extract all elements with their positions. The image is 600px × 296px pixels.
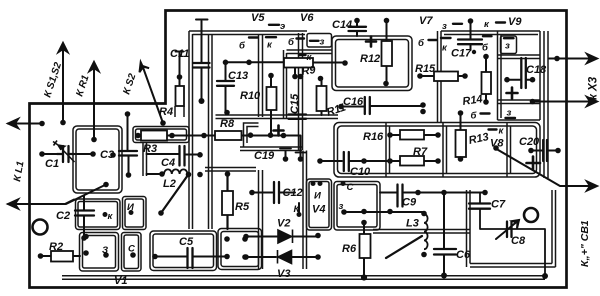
- svg-text:С7: С7: [491, 199, 506, 211]
- dash of b V5: [249, 36, 258, 38]
- arrow K S2 head: [140, 62, 150, 72]
- wire R13 leads: [460, 113, 462, 159]
- trace dividers V9 column: [498, 55, 541, 120]
- svg-text:R6: R6: [342, 243, 357, 255]
- capacitor C2 plates: [75, 211, 94, 216]
- box C1/C3 cell: [73, 126, 122, 193]
- capacitor C11 plates: [193, 63, 210, 68]
- resistor R14: [482, 72, 492, 94]
- plus C14: [366, 37, 376, 47]
- diode V2: [278, 230, 293, 244]
- svg-text:С15: С15: [289, 93, 301, 114]
- trace under R3 down to L2: [143, 143, 147, 177]
- svg-text:R9: R9: [301, 64, 317, 78]
- svg-text:С2: С2: [56, 210, 70, 222]
- trace bottom long near board bottom edge: [62, 276, 545, 279]
- wire C11 lead: [196, 20, 208, 102]
- svg-text:R3: R3: [143, 143, 157, 155]
- bar of k V5: [266, 36, 276, 38]
- svg-text:V8: V8: [490, 138, 504, 150]
- arrow K S1,S2 head: [59, 43, 68, 56]
- wire R12 bottom lead: [386, 66, 388, 84]
- svg-text:И: И: [314, 191, 321, 202]
- resistor R11: [317, 86, 327, 111]
- svg-text:R10: R10: [240, 90, 261, 102]
- wire R3 row: [138, 135, 215, 137]
- dash of -k V8: [489, 128, 497, 130]
- arrow K R1 head: [90, 62, 99, 75]
- trace top border right cells: [441, 31, 540, 35]
- wire C8 trimmer diagonal: [496, 220, 519, 239]
- svg-text:з: з: [507, 108, 512, 119]
- inductor L3 coil: [424, 214, 428, 249]
- svg-text:з: з: [320, 37, 325, 48]
- dash of -k V6: [299, 54, 306, 56]
- wire b to R14: [485, 57, 487, 103]
- dash of -e V5 top: [269, 24, 279, 26]
- wire R8 to emitter bus row: [242, 135, 301, 137]
- wire C9 row: [380, 192, 485, 194]
- box around R8 right terminal: [244, 123, 259, 147]
- svg-text:С: С: [347, 182, 354, 193]
- wire C17 lead: [470, 21, 472, 50]
- arrow C1 trimmer: [53, 141, 75, 163]
- trace C19 cell top: [240, 147, 302, 151]
- arrow K L1 top head: [8, 119, 18, 128]
- capacitor C3 plates: [119, 151, 137, 156]
- bar of b V8top: [483, 35, 492, 37]
- wire C10/R7 row: [320, 160, 438, 162]
- wire C19 stubs: [286, 136, 301, 160]
- underline of z V9 low: [506, 117, 516, 119]
- svg-text:з: з: [339, 201, 344, 212]
- wire C20 row: [531, 150, 558, 152]
- svg-text:V1: V1: [114, 275, 127, 287]
- box R3 cell: [133, 127, 189, 143]
- wire C4 row: [147, 153, 201, 156]
- trace R9 cell top: [287, 50, 333, 67]
- svg-text:С: С: [128, 244, 135, 255]
- plus V9 cell: [507, 88, 518, 99]
- dash of -z V6: [310, 40, 319, 42]
- wire z cell to L3: [344, 211, 424, 213]
- bar of k V7: [441, 37, 451, 39]
- trace pair right of C13 cell: [259, 34, 263, 117]
- capacitor C13 plates: [217, 81, 234, 86]
- svg-text:R7: R7: [413, 146, 428, 158]
- dash of k- V9 top: [496, 21, 505, 23]
- capacitor C14 plates: [349, 27, 367, 31]
- bar of z V9: [504, 37, 514, 39]
- resistor R15: [434, 72, 458, 82]
- arrow K L1 bottom head: [8, 200, 18, 209]
- wire L3/C6 lead: [443, 193, 445, 276]
- capacitor C5 plates: [188, 248, 193, 268]
- trace row2 divider b: [443, 123, 447, 178]
- trace pair vertical left of C11 cell: [189, 31, 193, 229]
- arrow C8 trimmer head: [513, 220, 520, 229]
- box z cell: [334, 182, 380, 231]
- wire R10 leads: [270, 76, 272, 136]
- box k cell lower-left: [76, 199, 121, 230]
- wire C15 top lead: [294, 67, 296, 77]
- resistor R13: [456, 130, 467, 157]
- svg-text:С11: С11: [170, 48, 189, 60]
- svg-text:R12: R12: [360, 53, 380, 65]
- resistor R9: [284, 58, 313, 68]
- trace R4 lead channel: [175, 106, 184, 117]
- svg-text:R4: R4: [159, 106, 173, 118]
- svg-text:С9: С9: [402, 197, 417, 209]
- svg-text:э: э: [280, 21, 285, 32]
- svg-text:З: З: [102, 245, 108, 256]
- wire K S1,S2 lead: [62, 45, 64, 123]
- capacitor C4 plates: [180, 146, 185, 166]
- wire R16 row: [390, 134, 438, 136]
- wire diagonal L2 to V1 cell: [161, 175, 188, 213]
- svg-text:С18: С18: [526, 64, 547, 76]
- svg-text:К„+" СВ1: К„+" СВ1: [579, 220, 591, 267]
- resistor R10: [267, 87, 277, 110]
- diode V3: [278, 250, 292, 264]
- resistor R2: [51, 251, 73, 262]
- trace row border under C13/C15: [216, 115, 339, 119]
- wire arrow to X3 bottom: [533, 101, 567, 103]
- inductor L2 coil: [164, 169, 187, 174]
- box V1 cell left part: [80, 233, 119, 272]
- svg-text:С19: С19: [254, 150, 275, 162]
- svg-text:С6: С6: [456, 249, 471, 261]
- box V1 cell C part: [122, 233, 142, 272]
- svg-text:V3: V3: [277, 268, 290, 280]
- svg-text:С8: С8: [511, 235, 526, 247]
- wire R2 row: [41, 255, 81, 257]
- capacitor C8 plates: [507, 222, 512, 238]
- box V2/V3 cell: [218, 229, 262, 270]
- svg-text:С4: С4: [161, 157, 175, 169]
- wire R6 leads: [363, 223, 365, 278]
- trace row2 divider a: [386, 123, 390, 178]
- wire K S2 diagonal: [143, 66, 164, 123]
- wire C2 trimmer diagonal: [66, 185, 106, 205]
- wire arrow to X3 top: [549, 58, 566, 60]
- resistor R12: [382, 41, 393, 66]
- trace bottom right cell: [470, 190, 556, 267]
- wire C18 row: [507, 79, 533, 81]
- wire V2 diode row: [246, 236, 318, 238]
- wire base bus V5: [226, 61, 285, 63]
- svg-text:V9: V9: [508, 16, 522, 28]
- trace vertical right of C6 area: [467, 190, 471, 267]
- box I/V4 cell: [307, 179, 332, 230]
- trace row2 divider c: [507, 123, 511, 178]
- box V9 column: [498, 31, 502, 120]
- trace pair R5/C12 divider: [259, 170, 263, 269]
- box V6 cell: [332, 36, 412, 91]
- dash of z- V7 top: [453, 23, 462, 25]
- capacitor C9 plates: [398, 185, 403, 207]
- wire C1 row: [42, 153, 93, 155]
- wire R12 top lead: [386, 21, 388, 42]
- resistor R7: [400, 156, 424, 166]
- arrow K X3 bottom: [566, 97, 597, 106]
- svg-text:С13: С13: [228, 70, 248, 82]
- svg-text:V7: V7: [419, 15, 433, 27]
- resistor R5: [222, 191, 233, 215]
- svg-text:V5: V5: [251, 12, 265, 24]
- capacitor C12 plates: [274, 182, 279, 203]
- svg-text:з: з: [505, 41, 510, 52]
- box row2 outer: [334, 123, 540, 178]
- wire R4 lead: [176, 52, 184, 87]
- capacitor C7 plates: [469, 204, 490, 209]
- wire C7 leads: [480, 193, 545, 277]
- capacitor C18 plates: [521, 58, 526, 88]
- dash of b- V7: [429, 39, 437, 41]
- capacitor C1 plates: [57, 146, 74, 162]
- box C5 cell: [150, 231, 217, 271]
- box I cell lower-left: [123, 197, 147, 230]
- wire C14 lead: [356, 21, 358, 37]
- wire C2 lead: [83, 196, 85, 239]
- plus C15: [274, 126, 284, 136]
- svg-text:R8: R8: [220, 118, 235, 130]
- dash of b- V8: [481, 112, 490, 114]
- svg-text:С3: С3: [100, 149, 114, 161]
- box z-bar sub-cell: [501, 36, 517, 54]
- resistor R3: [141, 131, 167, 141]
- capacitor C20 plates: [543, 140, 547, 161]
- mounting hole bottom-left: [33, 220, 48, 235]
- svg-text:R5: R5: [235, 201, 250, 213]
- capacitor C16 plates: [365, 97, 370, 114]
- wire C16 row: [341, 105, 423, 108]
- resistor R4: [176, 86, 185, 106]
- svg-text:к Х3: к Х3: [588, 76, 600, 100]
- trace emitter bus V5: [299, 33, 303, 150]
- trace V7 cell left edge: [438, 31, 442, 122]
- arrow to CB1: [560, 182, 597, 191]
- wire R5 leads: [226, 174, 228, 229]
- wire L2 left stub: [147, 173, 163, 175]
- plus C20: [527, 157, 541, 170]
- wire C5 row: [155, 256, 227, 258]
- wire V8 diagonal to CB1: [497, 149, 561, 186]
- trace R5 cell top: [205, 168, 256, 172]
- svg-text:И: И: [127, 202, 134, 213]
- svg-text:С12: С12: [283, 187, 303, 199]
- svg-text:V6: V6: [300, 12, 314, 24]
- svg-text:L3: L3: [406, 218, 419, 230]
- wire diagonal to L3: [386, 236, 422, 258]
- svg-text:R2: R2: [49, 241, 63, 253]
- svg-text:R15: R15: [415, 63, 436, 75]
- capacitor C19 plates: [280, 149, 306, 153]
- wire V3 diode row: [246, 256, 318, 258]
- wire left arrow K L1 top: [8, 123, 42, 125]
- capacitor C17 plates: [458, 40, 482, 45]
- svg-text:С14: С14: [332, 19, 352, 31]
- svg-text:С1: С1: [45, 158, 59, 170]
- trace pair between C11 and C13 cells: [209, 34, 213, 229]
- wire left arrow K L1 bottom: [8, 200, 74, 205]
- wire C3 lead: [128, 114, 129, 175]
- trace pair left of C15 cell: [284, 50, 287, 118]
- box around -з of V6: [307, 34, 332, 48]
- mounting hole right: [524, 208, 538, 222]
- trace bottom row border middle: [373, 230, 470, 234]
- trace top border of cell block: [189, 31, 307, 35]
- wire R11 leads: [321, 79, 323, 116]
- wire R9 to via: [313, 62, 345, 64]
- wire C13 leads: [225, 63, 227, 113]
- svg-text:С16: С16: [343, 96, 364, 108]
- resistor R16: [400, 130, 424, 140]
- dash of b V6: [297, 37, 305, 39]
- trace right column edge: [540, 31, 548, 178]
- wire R15 row: [420, 75, 465, 77]
- svg-text:С10: С10: [350, 166, 371, 178]
- svg-text:V2: V2: [277, 218, 290, 230]
- resistor R8: [215, 131, 242, 140]
- svg-text:L2: L2: [163, 178, 176, 190]
- svg-text:з: з: [442, 21, 447, 32]
- svg-text:С20: С20: [519, 136, 540, 148]
- capacitor C10 plates: [344, 152, 349, 171]
- capacitor C15 plates: [289, 115, 307, 119]
- svg-text:С5: С5: [179, 236, 194, 248]
- capacitor C6 plates: [434, 249, 456, 255]
- svg-text:V4: V4: [312, 204, 325, 216]
- wire K R1 lead: [93, 65, 95, 139]
- arrow K X3 top: [566, 54, 597, 63]
- svg-text:С17: С17: [451, 48, 472, 60]
- resistor R6: [360, 234, 371, 258]
- wire C12 row: [252, 193, 299, 214]
- svg-text:R16: R16: [363, 131, 384, 143]
- trace vertical between C19 cell and V4 cell: [303, 151, 307, 270]
